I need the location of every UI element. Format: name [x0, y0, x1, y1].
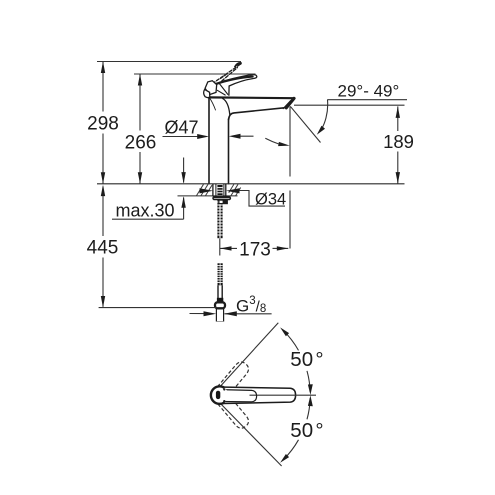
svg-text:max.30: max.30: [116, 201, 175, 221]
lever arm outline: [212, 75, 257, 96]
aerator inner line: [283, 101, 290, 109]
svg-text:50°: 50°: [290, 419, 323, 442]
shank left line: [212, 184, 214, 196]
diagonal 50 upper: [219, 323, 279, 389]
curved pointer to spout line: [265, 138, 278, 144]
ext line 298 top: [97, 61, 241, 63]
arc lower 50: [283, 398, 310, 460]
underline max30: [112, 218, 184, 220]
diagonal 50 lower: [219, 402, 281, 466]
arrow Ø34 left (points right): [200, 188, 214, 193]
ref line 445 bottom: [99, 307, 217, 309]
hinge dot upper: [223, 388, 225, 390]
raised lever tip cap: [234, 62, 242, 68]
arrow arc upper top: [280, 327, 289, 336]
arrowheads (thin dims): [101, 62, 400, 317]
threaded rod: [217, 185, 222, 238]
connector tube: [216, 309, 223, 322]
arrow Ø47 right (points left): [229, 134, 241, 139]
tail Ø47 right arrow: [236, 135, 254, 137]
spout tip aerator face: [286, 98, 294, 107]
faucet body column right edge: [228, 119, 230, 184]
dim line 266: [139, 74, 141, 131]
arrow Ø47 left (points right): [197, 134, 209, 139]
underline 29-49: [327, 99, 407, 101]
arrow 189 down: [396, 172, 400, 184]
spout-body fillet curve: [223, 98, 230, 114]
dim line 445: [102, 187, 104, 237]
arrow 445 up: [101, 185, 105, 197]
lever top view inner outline: [221, 390, 257, 402]
mounting nut dark side: [223, 200, 228, 204]
arrow arc lower bottom: [280, 454, 289, 463]
dashed lever rotated down 50: [217, 394, 251, 430]
lever thick top band: [215, 77, 252, 85]
angle arc 29-49: [320, 100, 328, 132]
shank sleeve inner right: [223, 184, 225, 196]
leader Ø34: [238, 191, 285, 207]
handle head circle fill: [211, 387, 228, 404]
shank right line: [225, 184, 227, 196]
arrow 173 left: [220, 246, 232, 250]
arrow max30 down: [181, 172, 185, 184]
water stream diagonal: [290, 106, 320, 142]
handle pivot base: [205, 81, 217, 95]
tail G38 left arrow: [190, 313, 208, 315]
svg-text:445: 445: [87, 238, 119, 259]
hose braided section: [218, 263, 223, 285]
svg-text:Ø47: Ø47: [165, 117, 199, 137]
head slot: [216, 391, 220, 399]
arc upper 50: [283, 330, 310, 392]
spout height ref line: [294, 104, 405, 106]
lever base inner line: [217, 90, 225, 95]
arrow G38 right (points left): [224, 311, 237, 316]
mounting nut: [219, 200, 227, 204]
arrow 189 up: [396, 106, 400, 118]
arrow Ø34 right (points left): [226, 188, 240, 193]
ext line 266 top: [134, 73, 256, 75]
arrow 266 up: [138, 74, 142, 86]
handle front knob: [204, 89, 210, 97]
body inner curve: [210, 98, 216, 110]
ext line max30 lower: [183, 198, 185, 220]
arrow arc upper bottom: [308, 384, 313, 395]
raised lever dashed line lower: [214, 68, 237, 88]
handle head circle: [211, 386, 225, 403]
arrow curved pointer: [278, 142, 290, 146]
hinge dot lower: [223, 400, 225, 402]
arrow angle arc end: [317, 126, 325, 135]
svg-text:266: 266: [125, 133, 157, 154]
washer dark top band: [214, 196, 230, 198]
dim line 189: [397, 106, 399, 131]
ext line max30 upper: [183, 158, 185, 183]
spout top edge: [209, 96, 294, 99]
hose end fitting: [217, 298, 223, 302]
raised lever mid dash: [221, 74, 227, 78]
connector nut G3/8: [215, 302, 225, 308]
hose tube section: [218, 285, 222, 298]
arrow 266 down: [138, 172, 142, 184]
svg-text:50°: 50°: [290, 348, 323, 371]
arrow 173 right: [277, 246, 289, 250]
arrow 445 down: [101, 296, 105, 308]
ext line rod bottom: [219, 239, 221, 256]
lever top view outline: [218, 387, 296, 404]
dim line 173: [220, 247, 237, 249]
counter top line: [97, 183, 405, 185]
svg-text:Ø34: Ø34: [255, 191, 286, 209]
leader Ø47: [163, 136, 199, 138]
shank sleeve inner left: [215, 184, 217, 196]
centerline: [250, 394, 317, 396]
svg-text:189: 189: [383, 131, 414, 152]
dim line 298: [102, 62, 104, 112]
arrow max30 up: [181, 196, 185, 208]
svg-text:29°- 49°: 29°- 49°: [338, 82, 400, 101]
arrow 298 up: [101, 62, 105, 74]
dashed lever rotated up 50: [217, 359, 251, 395]
ext line spout tip vertical: [289, 107, 291, 177]
svg-text:298: 298: [87, 114, 119, 135]
svg-text:173: 173: [239, 240, 271, 261]
spout bottom edge: [229, 108, 285, 120]
faucet body column left edge: [208, 98, 210, 184]
counter bottom line: [178, 195, 238, 197]
counter hatch right: [229, 184, 241, 195]
washer under counter: [213, 197, 230, 200]
arrow G38 left (points right): [204, 311, 217, 316]
arrow arc lower top: [308, 395, 313, 406]
lever neck front edge: [219, 83, 228, 94]
arrow 298 down: [101, 172, 105, 184]
counter hatch left: [197, 184, 213, 195]
raised lever dashed line upper: [212, 65, 240, 84]
underline G38: [225, 313, 272, 315]
